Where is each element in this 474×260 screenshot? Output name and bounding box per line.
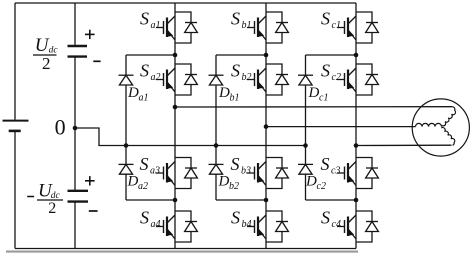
wire capacitor branch top — [74, 3, 76, 46]
svg-text:c3: c3 — [331, 166, 340, 177]
label -Udc/2 lower — [27, 196, 34, 198]
IGBT Sb2 — [247, 64, 288, 95]
motor winding phase c — [441, 128, 454, 146]
svg-text:D: D — [308, 85, 320, 101]
svg-text:S: S — [140, 154, 149, 174]
junction node output a — [173, 105, 178, 110]
IGBT Sb4 — [247, 211, 288, 242]
battery E short plate — [9, 130, 21, 133]
wire phase b output — [266, 126, 416, 128]
motor M stator circle — [412, 99, 469, 156]
diode Db1 — [209, 75, 224, 85]
wire clamp top a — [126, 54, 175, 56]
wire capacitor branch bottom — [74, 202, 76, 249]
wire phase b leg — [265, 3, 267, 249]
svg-text:D: D — [127, 174, 139, 190]
wire left rail lower — [14, 132, 16, 249]
wire clamp bottom a — [126, 199, 175, 201]
wire clamp branch b — [215, 55, 217, 200]
svg-text:S: S — [321, 208, 330, 228]
svg-text:D: D — [305, 174, 317, 190]
polarity + capacitor C2 — [85, 176, 95, 185]
junction node 0 — [73, 126, 78, 131]
junction node clamp mid b — [214, 143, 219, 148]
junction node J1b — [264, 53, 269, 58]
svg-text:a3: a3 — [150, 166, 160, 177]
diode Da1 — [119, 75, 134, 85]
junction node clamp mid a — [124, 143, 129, 148]
wire capacitor branch middle — [74, 57, 76, 191]
svg-text:D: D — [218, 174, 230, 190]
polarity + capacitor C1 — [85, 30, 95, 39]
polarity - capacitor C2 — [89, 210, 98, 212]
svg-text:S: S — [231, 208, 240, 228]
wire phase c output — [356, 144, 452, 146]
wire neutral from node 0 — [75, 128, 306, 146]
svg-text:S: S — [231, 154, 240, 174]
wire bottom DC rail — [15, 248, 356, 250]
capacitor C2 top plate — [68, 190, 89, 192]
motor winding phase a — [442, 107, 456, 126]
junction node J1c — [354, 53, 359, 58]
svg-text:S: S — [140, 208, 149, 228]
junction node J2a — [173, 198, 178, 203]
wire left rail upper — [14, 3, 16, 120]
diode Da2 — [119, 164, 134, 174]
svg-text:S: S — [231, 61, 240, 81]
wire clamp bottom b — [216, 199, 266, 201]
svg-text:S: S — [321, 61, 330, 81]
capacitor C1 bottom plate — [68, 55, 88, 57]
IGBT Sa1 — [156, 12, 197, 43]
IGBT Sa3 — [156, 158, 197, 189]
wire clamp top b — [216, 54, 266, 56]
svg-text:c2: c2 — [317, 181, 326, 192]
svg-text:S: S — [321, 154, 330, 174]
svg-text:a4: a4 — [151, 219, 161, 230]
svg-text:S: S — [321, 9, 330, 29]
svg-text:a2: a2 — [138, 181, 148, 192]
svg-text:b1: b1 — [242, 20, 252, 31]
IGBT Sb1 — [247, 12, 288, 43]
wire top DC rail — [15, 2, 356, 4]
svg-text:2: 2 — [48, 200, 56, 217]
wire phase c leg — [355, 3, 357, 249]
IGBT Sc4 — [337, 211, 378, 242]
svg-text:2: 2 — [42, 54, 51, 73]
svg-text:a1: a1 — [139, 93, 149, 104]
svg-text:S: S — [231, 9, 240, 29]
wire clamp top c — [306, 54, 357, 56]
junction node output c — [354, 143, 359, 148]
IGBT Sc3 — [337, 158, 378, 189]
wire clamp bottom c — [306, 199, 357, 201]
svg-text:a1: a1 — [151, 20, 161, 31]
svg-text:0: 0 — [55, 114, 66, 139]
diode Dc1 — [298, 75, 313, 85]
svg-text:S: S — [140, 61, 149, 81]
IGBT Sb3 — [247, 158, 288, 189]
svg-text:D: D — [218, 85, 230, 101]
junction node J1a — [173, 53, 178, 58]
svg-text:b2: b2 — [229, 181, 239, 192]
wire phase a leg — [174, 3, 176, 249]
svg-text:c4: c4 — [332, 219, 341, 230]
junction node output b — [264, 124, 269, 129]
shadow line under bottom rail — [6, 251, 358, 253]
svg-text:c2: c2 — [332, 72, 341, 83]
motor winding phase b — [416, 123, 442, 126]
svg-text:b1: b1 — [230, 93, 240, 104]
diode Db2 — [209, 164, 224, 174]
IGBT Sa2 — [156, 64, 197, 95]
battery E long plate — [3, 120, 29, 122]
IGBT Sa4 — [156, 211, 197, 242]
junction node J2b — [264, 198, 269, 203]
svg-text:S: S — [140, 9, 149, 29]
svg-text:c1: c1 — [319, 93, 328, 104]
IGBT Sc1 — [337, 12, 378, 43]
svg-text:b4: b4 — [242, 219, 252, 230]
wire clamp branch c — [305, 55, 307, 200]
svg-text:b2: b2 — [242, 72, 252, 83]
svg-text:U: U — [35, 35, 50, 56]
capacitor C1 top plate — [68, 45, 88, 47]
svg-text:a2: a2 — [151, 72, 161, 83]
svg-text:b3: b3 — [241, 166, 251, 177]
IGBT Sc2 — [337, 64, 378, 95]
wire clamp branch a — [125, 55, 127, 200]
polarity - capacitor C1 — [93, 60, 100, 62]
capacitor C2 bottom plate — [68, 200, 89, 202]
svg-text:D: D — [127, 85, 139, 101]
svg-text:c1: c1 — [332, 20, 341, 31]
wire phase a output — [175, 106, 452, 108]
diode Dc2 — [298, 164, 313, 174]
junction node J2c — [354, 198, 359, 203]
junction node clamp mid c — [303, 143, 308, 148]
